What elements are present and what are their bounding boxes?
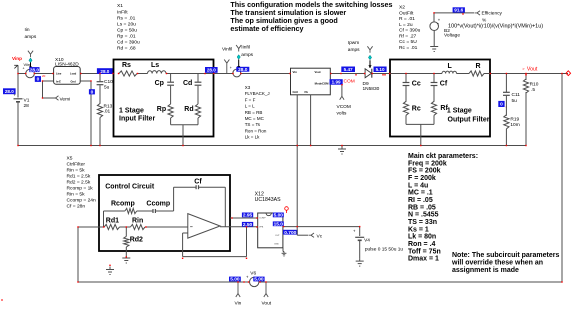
svg-text:Freq = 200k: Freq = 200k bbox=[408, 160, 447, 167]
svg-text:MC = MC: MC = MC bbox=[245, 116, 265, 121]
svg-text:2.50: 2.50 bbox=[243, 222, 253, 228]
bias box 0.700 bbox=[283, 230, 298, 235]
bias box 5.00 left bbox=[229, 277, 241, 282]
resistor Rd bbox=[195, 104, 200, 118]
bias box 28.0 mid bbox=[236, 67, 249, 72]
wire LISN Gnd right bbox=[80, 80, 91, 82]
subcircuit X10 LISN box bbox=[54, 67, 81, 85]
bias box 28.0 after LISN bbox=[97, 68, 113, 74]
voltage probe Vinfil bbox=[226, 63, 228, 66]
wire Cf loop right bbox=[224, 187, 226, 227]
wire Rin to opamp bbox=[145, 226, 188, 228]
voltage probe Vout bbox=[265, 282, 267, 294]
wire Rd2 bottom bbox=[125, 247, 127, 255]
ground below Rd2 bbox=[125, 255, 127, 258]
svg-text:Cp = 50u: Cp = 50u bbox=[117, 27, 137, 33]
resistor R13 bbox=[97, 104, 102, 118]
svg-text:amps: amps bbox=[25, 35, 37, 40]
svg-text:will override these when an: will override these when an bbox=[451, 259, 543, 266]
svg-text:COMP: COMP bbox=[259, 217, 266, 219]
wire Rd bottom bbox=[197, 118, 199, 125]
capacitor Cf branch wire bbox=[433, 74, 435, 83]
svg-text:FS = 200k: FS = 200k bbox=[408, 168, 441, 175]
wire plus bottom horizontal bbox=[183, 256, 247, 258]
svg-text:10m: 10m bbox=[510, 122, 519, 128]
wire LISN In-E left bbox=[43, 80, 54, 82]
svg-text:Vinfil: Vinfil bbox=[222, 47, 232, 53]
ammeter VMin circle bbox=[26, 69, 35, 78]
wire C10 to R13 bbox=[99, 85, 101, 104]
wire R to edge bbox=[484, 73, 490, 75]
svg-text:TS = 33n: TS = 33n bbox=[408, 219, 437, 226]
svg-text:Vout: Vout bbox=[262, 301, 272, 307]
voltage source V1 bbox=[14, 98, 23, 100]
svg-text:amps: amps bbox=[348, 48, 360, 53]
ground below B2 bbox=[433, 44, 435, 47]
wire Ls to edge bbox=[166, 73, 214, 75]
svg-text:Lk = 80n: Lk = 80n bbox=[408, 234, 436, 241]
red pin marks bbox=[17, 73, 18, 74]
svg-text:Rf = .27: Rf = .27 bbox=[399, 33, 417, 39]
svg-text:assignment is made: assignment is made bbox=[452, 267, 519, 274]
svg-text:L = L: L = L bbox=[245, 104, 255, 109]
svg-text:L: L bbox=[448, 63, 453, 70]
svg-text:Rd2: Rd2 bbox=[130, 237, 143, 244]
wire vout rail bbox=[490, 73, 568, 75]
svg-text:Ccomp = 24n: Ccomp = 24n bbox=[67, 198, 97, 204]
svg-text:Rd = .68: Rd = .68 bbox=[117, 46, 136, 52]
wire V4 bottom bbox=[359, 240, 361, 258]
svg-text:amps: amps bbox=[241, 53, 253, 58]
bias box 28.0 filter out bbox=[205, 67, 218, 73]
wire outfilter stub to bus bbox=[420, 124, 422, 145]
net label squiggle Efficiency bbox=[475, 11, 481, 15]
ground below chip bbox=[283, 252, 285, 254]
bias box 28.0 left bbox=[3, 88, 16, 94]
capacitor C11 bbox=[503, 91, 510, 93]
capacitor Cc branch wire bbox=[405, 74, 407, 83]
wire left drop bbox=[77, 227, 79, 282]
svg-text:Ks = 1: Ks = 1 bbox=[408, 226, 429, 233]
svg-text:Vinp: Vinp bbox=[12, 56, 22, 61]
svg-text:Cd = 390u: Cd = 390u bbox=[117, 40, 140, 46]
svg-text:ModeCOM: ModeCOM bbox=[315, 82, 329, 86]
svg-text:+: + bbox=[353, 229, 356, 234]
svg-text:1N5830: 1N5830 bbox=[363, 86, 380, 92]
svg-text:X1: X1 bbox=[117, 3, 123, 9]
wire opamp plus stub bbox=[183, 232, 188, 234]
current probe Iinfil marker bbox=[238, 49, 240, 52]
svg-text:X3: X3 bbox=[245, 85, 251, 90]
svg-text:InFilt: InFilt bbox=[117, 9, 128, 15]
bias box 1.99 bbox=[330, 79, 343, 85]
wire diode to outfilter bbox=[372, 73, 390, 75]
bias box 0 on gnd wire bbox=[89, 89, 95, 94]
svg-text:RB = RB: RB = RB bbox=[245, 110, 263, 115]
svg-text:F = F: F = F bbox=[245, 97, 256, 102]
off-page connector Vinp bbox=[14, 65, 18, 69]
wire R13 bottom bbox=[99, 118, 101, 146]
wire outfilter entry bbox=[390, 73, 442, 75]
svg-text:Ron = Ron: Ron = Ron bbox=[245, 128, 267, 133]
svg-text:Ccomp: Ccomp bbox=[146, 200, 170, 207]
bias box 5.00 chip bbox=[273, 213, 284, 218]
resistor Rd2 wire bbox=[125, 227, 127, 236]
wire C11 branch top bbox=[505, 74, 507, 93]
svg-text:.01: .01 bbox=[104, 109, 111, 115]
svg-text:estimate of efficiency: estimate of efficiency bbox=[230, 24, 303, 33]
svg-text:Vin: Vin bbox=[293, 70, 298, 74]
svg-text:28: 28 bbox=[24, 103, 30, 109]
wire Cp to Rp bbox=[170, 86, 172, 104]
resistor Rd1 bbox=[104, 224, 119, 229]
svg-text:Cf: Cf bbox=[440, 80, 448, 87]
svg-text:Cf: Cf bbox=[194, 179, 202, 186]
svg-text:RI = .05: RI = .05 bbox=[408, 197, 433, 204]
svg-text:OUT: OUT bbox=[275, 235, 280, 237]
svg-text:Vout: Vout bbox=[315, 70, 321, 74]
wire Vinp to VMin bbox=[18, 73, 26, 75]
svg-text:−: − bbox=[190, 224, 193, 230]
svg-text:RB = .05: RB = .05 bbox=[408, 204, 436, 211]
wire vc stub bbox=[296, 227, 298, 236]
resistor R bbox=[469, 71, 484, 76]
svg-text:GND: GND bbox=[274, 244, 279, 246]
svg-text:Rp: Rp bbox=[157, 106, 166, 113]
capacitor Cd bbox=[195, 81, 202, 83]
svg-text:+: + bbox=[230, 66, 232, 70]
svg-text:R10: R10 bbox=[530, 82, 539, 88]
svg-text:Cf = 390u: Cf = 390u bbox=[399, 28, 421, 34]
wire Rs to Ls bbox=[137, 73, 148, 75]
wire L to R bbox=[457, 73, 470, 75]
svg-text:.5: .5 bbox=[531, 87, 535, 93]
svg-text:Dmax = 1: Dmax = 1 bbox=[408, 256, 439, 263]
wire R19 bottom bbox=[505, 129, 507, 146]
input filter box bbox=[114, 60, 214, 137]
wire filter bottom join bbox=[171, 124, 198, 126]
svg-text:Output Filter: Output Filter bbox=[448, 117, 490, 124]
svg-text:28.0: 28.0 bbox=[207, 68, 216, 73]
wire V1 bottom bbox=[17, 102, 19, 146]
ground bus wire bbox=[18, 145, 526, 147]
resistor Rcomp bbox=[125, 208, 137, 213]
svg-text:Toff = 75n: Toff = 75n bbox=[408, 248, 441, 255]
wire outfilter bottom join bbox=[406, 123, 434, 125]
svg-text:Rcomp = 1k: Rcomp = 1k bbox=[67, 186, 94, 192]
wire V1 top bbox=[17, 66, 19, 98]
bias box 15.0 bbox=[273, 221, 284, 226]
wire flyback vout bbox=[330, 73, 365, 75]
svg-text:5.10: 5.10 bbox=[376, 67, 385, 72]
wire LISN Gnd down bbox=[90, 81, 92, 146]
svg-text:X5: X5 bbox=[67, 155, 73, 161]
svg-text:1 Stage: 1 Stage bbox=[119, 108, 144, 115]
wire Rc bottom bbox=[405, 115, 407, 124]
svg-text:Ls = 20u: Ls = 20u bbox=[117, 21, 136, 27]
bias box 0 below VMin bbox=[35, 76, 41, 82]
svg-text:Rd2 = 2.5k: Rd2 = 2.5k bbox=[67, 180, 91, 186]
svg-text:FLYBACK_J: FLYBACK_J bbox=[245, 91, 270, 96]
svg-text:R = .01: R = .01 bbox=[399, 16, 415, 22]
wire COM down bbox=[341, 85, 343, 97]
wire left feedback entry bbox=[78, 226, 104, 228]
svg-text:MC = .1: MC = .1 bbox=[408, 190, 433, 197]
capacitor Cf ctrl bbox=[195, 185, 197, 189]
svg-text:28.0: 28.0 bbox=[100, 69, 109, 74]
wire ModeCOM bbox=[330, 82, 342, 84]
svg-text:pulse 0 15 50u 1u: pulse 0 15 50u 1u bbox=[365, 246, 403, 252]
svg-text:COM: COM bbox=[344, 79, 355, 85]
wire Cf loop top left bbox=[174, 186, 196, 188]
svg-text:+: + bbox=[23, 67, 25, 71]
resistor R10 bbox=[523, 79, 528, 93]
subcircuit X3 flyback box bbox=[291, 68, 331, 95]
voltage probe VCOM bbox=[340, 96, 342, 100]
ground at bus bbox=[341, 146, 343, 149]
svg-text:Main ckt parameters:: Main ckt parameters: bbox=[408, 153, 478, 160]
svg-text:In-E: In-E bbox=[56, 80, 61, 84]
svg-text:>: > bbox=[522, 66, 525, 71]
svg-text:Ipwm: Ipwm bbox=[348, 40, 359, 46]
capacitor Ccomp bbox=[152, 209, 154, 213]
svg-text:Rc = .01: Rc = .01 bbox=[399, 45, 418, 51]
svg-text:Control Circuit: Control Circuit bbox=[105, 183, 155, 190]
wire Cf loop left bbox=[173, 187, 175, 211]
wire Rcomp node vertical bbox=[103, 211, 105, 227]
bias box 2.95 bbox=[242, 213, 253, 218]
svg-text:V4: V4 bbox=[364, 237, 370, 243]
svg-text:VFB: VFB bbox=[259, 227, 264, 229]
wire VMin to LISN bbox=[34, 73, 53, 75]
capacitor Cp bbox=[167, 81, 174, 83]
svg-text:Line: Line bbox=[56, 72, 62, 76]
wire R10 bottom bbox=[525, 92, 527, 146]
svg-text:Iinfil: Iinfil bbox=[241, 45, 250, 51]
svg-text:28.0: 28.0 bbox=[5, 89, 14, 94]
svg-text:0: 0 bbox=[500, 102, 503, 108]
capacitor C10 bbox=[97, 81, 104, 83]
ground floating bbox=[109, 267, 111, 270]
svg-text:Gnd: Gnd bbox=[71, 80, 77, 84]
svg-text:Cntl: Cntl bbox=[293, 90, 299, 94]
off-page connector right bbox=[566, 71, 571, 76]
resistor Rin bbox=[130, 224, 145, 229]
resistor Rf bbox=[431, 101, 436, 115]
svg-text:Rin = 5k: Rin = 5k bbox=[67, 192, 86, 198]
svg-text:Fb: Fb bbox=[305, 90, 309, 94]
svg-text:Rd1: Rd1 bbox=[106, 217, 119, 224]
wire chip out bbox=[283, 226, 360, 228]
svg-text:+: + bbox=[246, 275, 249, 280]
svg-text:TS = Ts: TS = Ts bbox=[245, 122, 261, 127]
svg-text:91.6: 91.6 bbox=[454, 8, 463, 13]
svg-text:N = .5455: N = .5455 bbox=[408, 212, 439, 219]
wire R10 branch top bbox=[525, 74, 527, 81]
svg-text:Rp = .01: Rp = .01 bbox=[117, 33, 136, 39]
svg-text:Cf = 28n: Cf = 28n bbox=[67, 204, 86, 210]
wire B2 top bbox=[434, 12, 474, 14]
net label squiggle Vemi bbox=[53, 96, 59, 100]
resistor Rp bbox=[168, 104, 173, 118]
svg-text:15.0: 15.0 bbox=[274, 222, 284, 228]
wire ammeter to flyback bbox=[241, 73, 291, 75]
wire Rp bottom bbox=[170, 118, 172, 125]
bias box 5.47 bbox=[341, 67, 355, 73]
source B2 circle bbox=[430, 22, 439, 31]
resistor R19 bbox=[504, 115, 509, 129]
svg-text:1 Stage: 1 Stage bbox=[447, 108, 472, 115]
svg-text:X2: X2 bbox=[399, 5, 405, 11]
svg-text:L = 2u: L = 2u bbox=[399, 22, 413, 28]
svg-text:0.700: 0.700 bbox=[284, 230, 296, 236]
bias box 5.00 right bbox=[253, 277, 264, 282]
svg-text:Load: Load bbox=[70, 72, 77, 76]
svg-text:Efficiency: Efficiency bbox=[482, 11, 503, 17]
wire C10 branch top bbox=[99, 74, 101, 82]
svg-text:0: 0 bbox=[91, 90, 94, 96]
svg-text:F = 200k: F = 200k bbox=[408, 175, 436, 182]
svg-text:Vc: Vc bbox=[317, 233, 323, 239]
svg-text:2.95: 2.95 bbox=[243, 213, 253, 219]
svg-text:Rin: Rin bbox=[132, 217, 143, 224]
resistor Rs bbox=[119, 71, 137, 76]
wire node to Rcomp bbox=[104, 210, 125, 212]
svg-text:20: 20 bbox=[42, 74, 46, 78]
wire filter stub to bus bbox=[182, 125, 184, 146]
wire right drop bbox=[561, 74, 563, 283]
wire Rcomp to Ccomp bbox=[137, 210, 153, 212]
ammeter circle mid bbox=[233, 69, 241, 77]
voltage probe Vin bbox=[237, 282, 239, 294]
wire V4 top bbox=[359, 227, 361, 236]
svg-text:OutFilt: OutFilt bbox=[399, 10, 414, 16]
op-amp U1 bbox=[188, 214, 220, 239]
current probe Iin marker bbox=[30, 54, 32, 57]
diode D9 bbox=[365, 69, 371, 78]
wire Ccomp to loop bbox=[156, 210, 174, 212]
svg-text:Note: The subcircuit parameter: Note: The subcircuit parameters bbox=[452, 252, 559, 259]
wire Vemi horizontal bbox=[43, 97, 55, 99]
capacitor Cp branch wire bbox=[170, 74, 172, 82]
resistor Rc bbox=[403, 101, 408, 115]
capacitor Cd branch wire bbox=[197, 74, 199, 82]
wire B2 bottom bbox=[433, 31, 435, 44]
svg-text:Rcomp: Rcomp bbox=[111, 200, 135, 207]
svg-text:0: 0 bbox=[37, 77, 40, 83]
wire Cf to Rf bbox=[433, 86, 435, 102]
off-page connector chip vcc bbox=[285, 207, 289, 211]
svg-text:5u: 5u bbox=[104, 85, 110, 91]
wire flyback fb down bbox=[310, 95, 312, 146]
resistor Rd2 bbox=[124, 236, 129, 247]
inductor Ls bbox=[148, 71, 167, 74]
wire Rd1 to Rin bbox=[120, 226, 131, 228]
wire Vemi vertical bbox=[42, 81, 44, 98]
wire C11 to R19 bbox=[505, 96, 507, 116]
svg-text:Ls: Ls bbox=[151, 62, 159, 69]
wire flyback cntl down bbox=[296, 95, 298, 227]
svg-text:R19: R19 bbox=[510, 117, 519, 123]
svg-text:Rin = 5k: Rin = 5k bbox=[67, 167, 86, 173]
ground below V4 bbox=[359, 258, 361, 261]
inductor L bbox=[442, 71, 457, 73]
wire Cc to Rc bbox=[405, 86, 407, 102]
control circuit box bbox=[99, 175, 230, 251]
svg-text:28.0: 28.0 bbox=[30, 67, 40, 73]
current probe Ipwm marker bbox=[369, 50, 371, 53]
bias box 0 on In-E wire bbox=[34, 75, 36, 77]
svg-text:Vout: Vout bbox=[527, 66, 538, 72]
bias box 2.50 bbox=[242, 222, 253, 227]
wire comp bbox=[230, 217, 258, 219]
svg-text:Rd1 = 2.5k: Rd1 = 2.5k bbox=[67, 173, 91, 179]
svg-text:+: + bbox=[438, 17, 441, 22]
voltage source V6 bbox=[250, 277, 259, 286]
wire opamp output bbox=[220, 226, 258, 228]
output filter box bbox=[390, 60, 490, 137]
wire Cf loop top right bbox=[199, 186, 226, 188]
bias box efficiency bbox=[453, 7, 465, 12]
wire Cd to Rd bbox=[197, 86, 199, 104]
svg-text:LISN-462D: LISN-462D bbox=[55, 62, 79, 68]
wire filter to ammeter bbox=[214, 73, 233, 75]
svg-text:Rf: Rf bbox=[440, 105, 448, 112]
net label squiggle Vc bbox=[309, 233, 315, 237]
svg-text:100*v(Vout)*i(r10)/(v(Vinp)*i(: 100*v(Vout)*i(r10)/(v(Vinp)*i(VMin)+1u) bbox=[448, 23, 543, 29]
svg-text:Rs: Rs bbox=[122, 62, 131, 69]
bias box 5.10 bbox=[374, 67, 387, 73]
svg-text:5.00: 5.00 bbox=[274, 213, 284, 219]
svg-text:Rd: Rd bbox=[184, 106, 193, 113]
svg-text:volts: volts bbox=[337, 111, 347, 117]
svg-text:V1: V1 bbox=[24, 98, 30, 104]
svg-text:Iin: Iin bbox=[25, 27, 30, 33]
svg-text:Cc = 5U: Cc = 5U bbox=[399, 39, 417, 45]
svg-text:Ron = .4: Ron = .4 bbox=[408, 241, 436, 248]
svg-text:CtrlFilter: CtrlFilter bbox=[67, 161, 86, 167]
svg-text:5u: 5u bbox=[512, 98, 518, 104]
wire opamp plus down bbox=[182, 233, 184, 257]
voltage source V4 bbox=[355, 236, 364, 238]
svg-text:Rc: Rc bbox=[412, 106, 421, 113]
chip X12 box bbox=[258, 213, 283, 248]
svg-text:Cc: Cc bbox=[412, 80, 421, 87]
svg-text:Input Filter: Input Filter bbox=[119, 116, 155, 123]
svg-text:28.0: 28.0 bbox=[238, 67, 248, 73]
svg-text:Cd: Cd bbox=[183, 80, 192, 87]
svg-text:Cp: Cp bbox=[155, 80, 164, 87]
wire Rf bottom bbox=[433, 115, 435, 124]
svg-text:R: R bbox=[476, 63, 481, 70]
wire plus up to vfb bbox=[246, 227, 248, 257]
svg-text:1.99: 1.99 bbox=[332, 80, 341, 85]
svg-text:Lk = Lk: Lk = Lk bbox=[245, 135, 260, 140]
svg-text:Rs = .01: Rs = .01 bbox=[117, 15, 136, 21]
svg-text:Vemi: Vemi bbox=[60, 97, 71, 103]
bias box 0 at C11 bbox=[498, 101, 504, 107]
svg-text:VCOM: VCOM bbox=[337, 104, 351, 110]
svg-text:Voltage: Voltage bbox=[444, 33, 460, 39]
svg-text:UC1843AS: UC1843AS bbox=[255, 197, 281, 203]
svg-text:5.47: 5.47 bbox=[344, 67, 353, 72]
svg-text:Vin: Vin bbox=[235, 301, 242, 307]
svg-text:5.00: 5.00 bbox=[254, 277, 264, 283]
svg-text:L = 4u: L = 4u bbox=[408, 182, 428, 189]
wire LISN load to filter bbox=[80, 73, 113, 75]
capacitor Cc bbox=[403, 82, 410, 84]
svg-text:C10: C10 bbox=[104, 79, 113, 85]
